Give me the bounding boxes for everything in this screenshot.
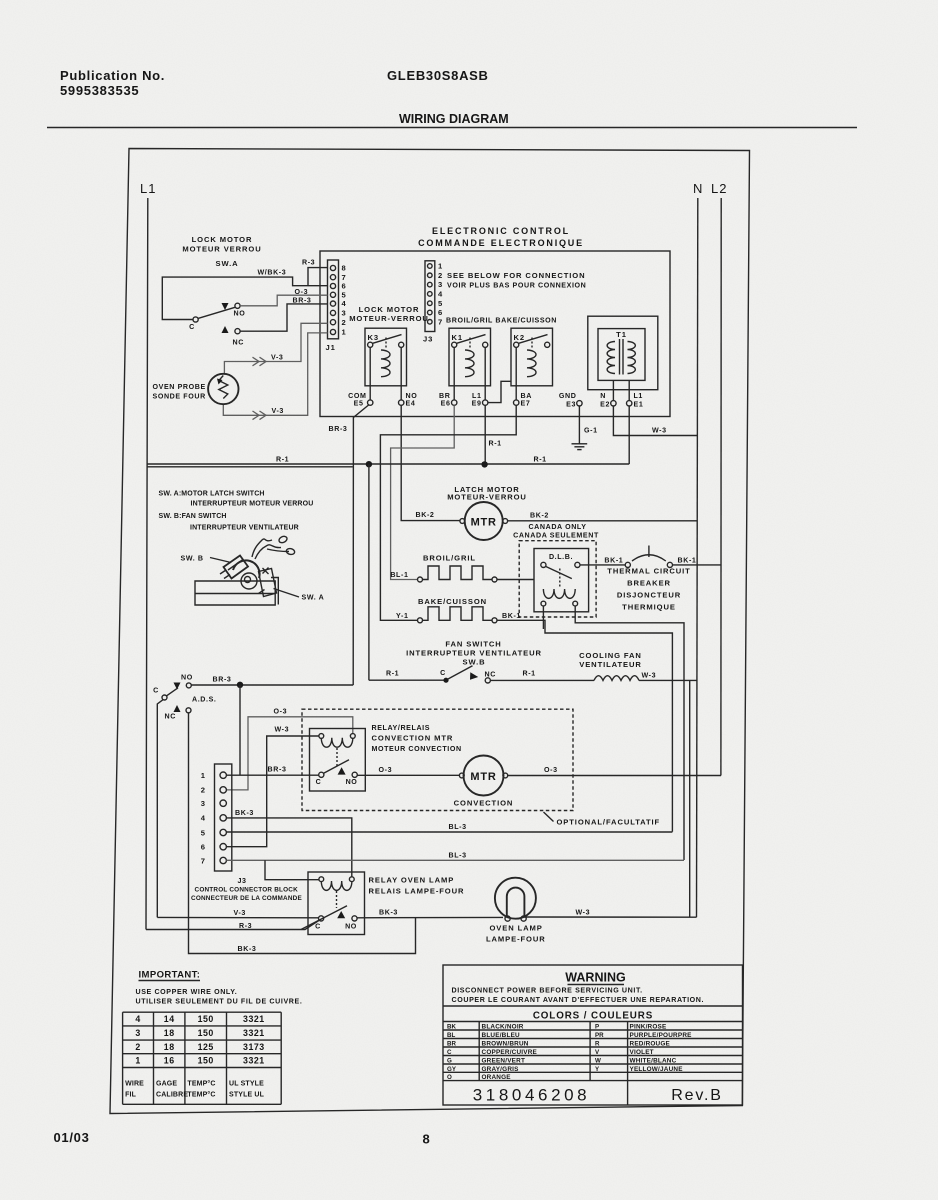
svg-text:BK-2: BK-2: [416, 511, 435, 519]
terminals GND E3, N E2, L1 E1: [577, 401, 582, 406]
svg-text:UTILISER SEULEMENT DU FIL DE C: UTILISER SEULEMENT DU FIL DE CUIVRE.: [136, 998, 303, 1006]
svg-text:GY: GY: [447, 1066, 457, 1073]
svg-text:CONNECTEUR DE LA COMMANDE: CONNECTEUR DE LA COMMANDE: [191, 895, 302, 902]
connector J3 upper: [425, 261, 435, 332]
wire NC to J1 pin4, BR-3: [240, 304, 327, 331]
wire bake right to BL-3 riser: [497, 620, 672, 832]
svg-text:INTERRUPTEUR VENTILATEUR: INTERRUPTEUR VENTILATEUR: [406, 649, 542, 658]
svg-text:FAN SWITCH: FAN SWITCH: [445, 640, 501, 649]
svg-text:BROIL/GRIL: BROIL/GRIL: [423, 554, 476, 563]
svg-text:G-1: G-1: [584, 427, 598, 435]
svg-text:O-3: O-3: [295, 288, 309, 296]
wire E7 to bake element: [380, 405, 516, 620]
svg-text:E6: E6: [441, 400, 451, 408]
svg-text:GLEB30S8ASB: GLEB30S8ASB: [387, 68, 489, 83]
D.L.B. relay box: [534, 549, 589, 612]
svg-text:NO: NO: [181, 674, 193, 682]
svg-text:OVEN PROBE: OVEN PROBE: [153, 383, 206, 391]
svg-text:COOLING FAN: COOLING FAN: [579, 651, 642, 660]
bus R-1: [148, 463, 630, 465]
svg-text:USE COPPER WIRE ONLY.: USE COPPER WIRE ONLY.: [136, 988, 238, 996]
svg-text:RELAIS LAMPE-FOUR: RELAIS LAMPE-FOUR: [369, 887, 465, 896]
chevrons upper: [253, 357, 260, 366]
svg-text:BR-3: BR-3: [268, 766, 287, 774]
svg-text:BK-2: BK-2: [530, 512, 549, 520]
svg-text:MOTEUR-VERROU: MOTEUR-VERROU: [447, 493, 527, 502]
svg-text:BK-3: BK-3: [235, 809, 254, 817]
svg-text:MOTEUR VERROU: MOTEUR VERROU: [182, 245, 261, 254]
page border frame: [110, 149, 750, 1114]
svg-text:NC: NC: [485, 671, 496, 679]
svg-text:COUPER LE COURANT AVANT D'EFFE: COUPER LE COURANT AVANT D'EFFECTUER UNE …: [452, 996, 705, 1004]
motor MTR latch: [465, 502, 503, 540]
svg-text:A.D.S.: A.D.S.: [192, 696, 217, 704]
svg-text:BR: BR: [447, 1040, 456, 1047]
svg-text:THERMAL CIRCUIT: THERMAL CIRCUIT: [607, 567, 690, 576]
svg-text:MOTEUR-VERROU: MOTEUR-VERROU: [349, 314, 429, 323]
svg-text:O-3: O-3: [379, 766, 393, 774]
svg-text:W-3: W-3: [576, 909, 591, 917]
cooling fan coil: [594, 676, 639, 681]
svg-text:W-3: W-3: [652, 427, 667, 435]
wire broil right to D.L.B.: [497, 579, 534, 581]
svg-text:WIRING DIAGRAM: WIRING DIAGRAM: [399, 112, 509, 126]
wire gauge table: [123, 1011, 282, 1013]
svg-text:R-1: R-1: [523, 670, 536, 678]
svg-text:2: 2: [342, 318, 346, 327]
svg-text:E3: E3: [566, 401, 576, 409]
connector J1: [328, 260, 339, 339]
electronic control box: [320, 251, 670, 417]
svg-text:L1: L1: [140, 181, 156, 196]
wire J1 pin1 to probe, V-3 lower: [223, 333, 327, 415]
wire L1 rail: [146, 198, 148, 930]
svg-text:3: 3: [342, 309, 346, 318]
svg-text:MTR: MTR: [471, 517, 497, 529]
svg-text:R-1: R-1: [386, 670, 399, 678]
wire J1 pin2 to probe, V-3 upper: [224, 323, 327, 374]
svg-text:J3: J3: [423, 335, 433, 344]
svg-text:3: 3: [135, 1028, 140, 1038]
wire A.D.S. NC down, BK-3: [189, 713, 416, 954]
svg-text:BL: BL: [447, 1032, 455, 1039]
svg-text:L1: L1: [634, 392, 643, 400]
wire J3 pin2 O-3 to relay coil: [226, 717, 352, 790]
svg-text:E9: E9: [472, 400, 482, 408]
svg-text:WHITE/BLANC: WHITE/BLANC: [630, 1057, 677, 1064]
wire J3 pin6 W-3 to relay coil: [226, 736, 319, 847]
svg-text:18: 18: [164, 1042, 175, 1052]
wire D.L.B. coil left stub: [542, 606, 544, 629]
wire E2 to N rail, W-3: [613, 406, 697, 436]
svg-text:C: C: [447, 1049, 452, 1056]
wire V-3 to relay C: [157, 916, 318, 918]
svg-text:18: 18: [164, 1028, 175, 1038]
wire J3 pin1 BR-3 to relay C: [226, 774, 318, 776]
wire BR-3 drop to convection relay: [239, 685, 241, 775]
svg-text:2: 2: [438, 271, 442, 280]
wire E4 BK-2 to latch motor: [401, 405, 460, 520]
svg-text:IMPORTANT:: IMPORTANT:: [139, 970, 201, 981]
svg-text:FIL: FIL: [125, 1092, 137, 1099]
svg-text:ORANGE: ORANGE: [482, 1074, 512, 1081]
svg-text:V-3: V-3: [272, 407, 284, 415]
svg-text:BR-3: BR-3: [329, 425, 348, 433]
svg-text:6: 6: [342, 282, 346, 291]
svg-text:GAGE: GAGE: [156, 1081, 177, 1088]
relay K3: [365, 328, 407, 386]
svg-text:E2: E2: [600, 401, 610, 409]
svg-text:C: C: [315, 923, 321, 931]
wire breaker to L2: [673, 564, 722, 566]
svg-text:6: 6: [438, 308, 442, 317]
svg-text:OVEN LAMP: OVEN LAMP: [490, 924, 543, 933]
svg-text:THERMIQUE: THERMIQUE: [622, 603, 676, 612]
svg-text:SW. B:FAN SWITCH: SW. B:FAN SWITCH: [159, 513, 227, 520]
optional dashed box: [302, 709, 573, 810]
svg-text:INTERRUPTEUR VENTILATEUR: INTERRUPTEUR VENTILATEUR: [190, 525, 299, 532]
svg-text:SEE BELOW FOR CONNECTION: SEE BELOW FOR CONNECTION: [447, 271, 585, 280]
ground symbol: [572, 443, 588, 445]
svg-text:VENTILATEUR: VENTILATEUR: [579, 660, 642, 669]
relay K1: [449, 328, 491, 386]
svg-text:R-3: R-3: [302, 259, 315, 267]
relay oven lamp: [308, 872, 365, 935]
svg-text:COPPER/CUIVRE: COPPER/CUIVRE: [482, 1049, 538, 1056]
wire relay NO to convection motor, O-3: [357, 774, 459, 776]
svg-text:SW.A: SW.A: [215, 259, 238, 268]
oven lamp: [495, 878, 536, 919]
svg-text:BLUE/BLEU: BLUE/BLEU: [482, 1032, 521, 1039]
wire E5 BR-3 down to A.D.S. NO: [353, 405, 369, 686]
svg-text:RELAY OVEN LAMP: RELAY OVEN LAMP: [369, 876, 455, 885]
wire A.D.S. C down, V-3: [157, 700, 163, 918]
svg-text:8: 8: [423, 1132, 431, 1147]
svg-text:CONVECTION MTR: CONVECTION MTR: [372, 734, 454, 743]
svg-text:INTERRUPTEUR MOTEUR VERROU: INTERRUPTEUR MOTEUR VERROU: [191, 501, 314, 508]
svg-text:1: 1: [135, 1056, 140, 1066]
svg-text:V-3: V-3: [234, 909, 246, 917]
wire E1 down to R-1 bus: [628, 406, 630, 464]
svg-text:W: W: [595, 1057, 601, 1064]
svg-text:BK-3: BK-3: [238, 945, 257, 953]
wire R-3 from L1 to relay C: [146, 921, 319, 930]
svg-text:E7: E7: [521, 400, 531, 408]
svg-text:GND: GND: [559, 392, 577, 400]
svg-text:SW. B: SW. B: [181, 555, 204, 563]
connector J3 block: [215, 764, 232, 871]
wire convection motor to L2, O-3: [508, 775, 721, 777]
svg-text:318046208: 318046208: [473, 1086, 591, 1105]
wire L2 rail: [720, 198, 722, 776]
wire J3 pin4 BK-3 to lamp relay coil: [226, 818, 351, 877]
svg-text:BROWN/BRUN: BROWN/BRUN: [482, 1040, 529, 1047]
svg-text:TEMP°C: TEMP°C: [187, 1091, 215, 1099]
svg-text:N: N: [693, 181, 703, 196]
svg-text:150: 150: [198, 1056, 214, 1066]
svg-text:CANADA ONLY: CANADA ONLY: [528, 523, 586, 531]
svg-text:BL-1: BL-1: [390, 571, 408, 579]
svg-text:T1: T1: [616, 330, 627, 339]
svg-text:VOIR PLUS BAS POUR CONNEXION: VOIR PLUS BAS POUR CONNEXION: [447, 282, 586, 290]
svg-text:7: 7: [342, 273, 346, 282]
svg-text:N: N: [600, 392, 606, 400]
svg-text:E5: E5: [354, 400, 364, 408]
D.L.B. relay dashed box: [519, 541, 596, 617]
svg-text:LOCK MOTOR: LOCK MOTOR: [359, 305, 420, 314]
svg-text:COLORS / COULEURS: COLORS / COULEURS: [533, 1011, 653, 1022]
svg-text:C: C: [153, 687, 159, 695]
svg-text:RELAY/RELAIS: RELAY/RELAIS: [372, 724, 431, 732]
svg-text:R-1: R-1: [276, 456, 289, 464]
switch SW.B fan: [369, 679, 444, 681]
transformer T1: [588, 316, 658, 390]
wire E9 down to bus: [484, 405, 486, 464]
svg-text:DISJONCTEUR: DISJONCTEUR: [617, 591, 681, 600]
wire R-1 down to fan switch: [368, 464, 370, 680]
wire J3 pin7 BL-3: [226, 859, 684, 861]
svg-text:STYLE UL: STYLE UL: [229, 1092, 265, 1099]
svg-text:BREAKER: BREAKER: [627, 579, 671, 588]
svg-text:SONDE FOUR: SONDE FOUR: [153, 393, 206, 401]
relay K2: [511, 328, 553, 386]
svg-text:NC: NC: [233, 339, 244, 347]
svg-text:4: 4: [135, 1014, 140, 1024]
latch mechanism drawing: [195, 535, 295, 605]
wire cooling fan to N, W-3: [639, 679, 697, 681]
label optional: [544, 812, 554, 822]
svg-text:3173: 3173: [243, 1042, 265, 1052]
svg-text:E1: E1: [634, 401, 644, 409]
svg-text:3321: 3321: [243, 1028, 265, 1038]
svg-text:BR-3: BR-3: [213, 676, 232, 684]
svg-text:R-1: R-1: [489, 440, 502, 448]
svg-text:MOTEUR CONVECTION: MOTEUR CONVECTION: [372, 745, 462, 753]
svg-text:Publication No.: Publication No.: [60, 68, 165, 83]
wire oven lamp W-3 riser: [689, 680, 691, 917]
svg-text:K3: K3: [368, 333, 380, 342]
svg-text:3: 3: [201, 799, 205, 808]
svg-text:G: G: [447, 1057, 452, 1064]
svg-text:BROIL/GRIL BAKE/CUISSON: BROIL/GRIL BAKE/CUISSON: [446, 317, 557, 325]
svg-text:J3: J3: [238, 877, 247, 885]
wire oven lamp to N rail, W-3: [524, 916, 696, 918]
oven probe: [208, 374, 238, 404]
wire E3 to ground, G-1: [578, 406, 580, 444]
svg-text:NC: NC: [165, 713, 176, 721]
svg-text:W/BK-3: W/BK-3: [258, 269, 287, 277]
svg-text:3321: 3321: [243, 1056, 265, 1066]
svg-text:L2: L2: [711, 181, 727, 196]
svg-text:NO: NO: [345, 923, 357, 931]
svg-text:NO: NO: [346, 778, 358, 786]
warning box: [443, 965, 743, 1105]
svg-text:CALIBRE: CALIBRE: [156, 1092, 188, 1099]
svg-text:O: O: [447, 1074, 452, 1081]
svg-text:O-3: O-3: [274, 708, 288, 716]
svg-text:BL-3: BL-3: [449, 823, 467, 831]
svg-text:2: 2: [201, 786, 205, 795]
motor MTR convection: [464, 756, 504, 796]
svg-text:K2: K2: [514, 333, 526, 342]
svg-text:SW. A:MOTOR LATCH SWITCH: SW. A:MOTOR LATCH SWITCH: [159, 491, 265, 498]
svg-text:RED/ROUGE: RED/ROUGE: [630, 1040, 671, 1047]
wire D.L.B. coil right to BL-3: [575, 606, 684, 860]
svg-text:ELECTRONIC CONTROL: ELECTRONIC CONTROL: [432, 226, 570, 236]
svg-text:8: 8: [342, 264, 346, 273]
svg-text:BLACK/NOIR: BLACK/NOIR: [482, 1023, 524, 1030]
svg-text:K1: K1: [452, 333, 464, 342]
svg-text:Y-1: Y-1: [396, 612, 408, 620]
svg-text:PINK/ROSE: PINK/ROSE: [630, 1023, 667, 1030]
relay convection: [310, 729, 366, 792]
svg-text:J1: J1: [326, 343, 336, 352]
legend info box top edge: [148, 466, 353, 468]
svg-text:C: C: [189, 323, 195, 331]
svg-text:R-1: R-1: [534, 456, 547, 464]
svg-text:14: 14: [164, 1014, 175, 1024]
svg-text:Rev.B: Rev.B: [671, 1087, 722, 1104]
svg-text:V-3: V-3: [271, 353, 283, 361]
svg-text:BK-3: BK-3: [379, 909, 398, 917]
svg-text:TEMP°C: TEMP°C: [187, 1080, 215, 1088]
switch SW.A: [193, 317, 198, 322]
wire C to J1 pin6, W/BK-3: [162, 277, 327, 319]
svg-text:R: R: [595, 1040, 600, 1047]
header rule: [47, 127, 857, 129]
wire A.D.S. NO to BR-3 riser: [191, 684, 353, 686]
svg-text:GREEN/VERT: GREEN/VERT: [482, 1057, 526, 1064]
svg-text:D.L.B.: D.L.B.: [549, 553, 573, 561]
svg-text:CONVECTION: CONVECTION: [454, 799, 514, 808]
svg-text:6: 6: [201, 843, 205, 852]
svg-text:CANADA SEULEMENT: CANADA SEULEMENT: [513, 532, 599, 540]
svg-text:E4: E4: [406, 400, 416, 408]
wire NO to J1 pin5, O-3: [240, 295, 327, 306]
svg-text:C: C: [316, 778, 322, 786]
svg-text:BK: BK: [447, 1023, 456, 1030]
wire E6 to broil element: [391, 405, 455, 579]
svg-text:NO: NO: [234, 310, 246, 318]
svg-text:3321: 3321: [243, 1014, 265, 1024]
svg-text:125: 125: [198, 1042, 214, 1052]
svg-text:OPTIONAL/FACULTATIF: OPTIONAL/FACULTATIF: [557, 818, 661, 827]
svg-text:5995383535: 5995383535: [60, 83, 139, 98]
svg-text:2: 2: [135, 1042, 140, 1052]
svg-text:GRAY/GRIS: GRAY/GRIS: [482, 1066, 520, 1073]
svg-text:BAKE/CUISSON: BAKE/CUISSON: [418, 597, 487, 606]
svg-text:01/03: 01/03: [54, 1130, 90, 1145]
heating element bake: [418, 618, 423, 623]
svg-text:LOCK MOTOR: LOCK MOTOR: [192, 235, 253, 244]
svg-text:LAMPE-FOUR: LAMPE-FOUR: [486, 935, 546, 944]
svg-text:7: 7: [201, 856, 205, 865]
svg-text:UL STYLE: UL STYLE: [229, 1081, 264, 1088]
wire pin7 jog to lamp relay coil: [265, 860, 319, 879]
svg-text:BK-1: BK-1: [502, 612, 521, 620]
svg-text:PR: PR: [595, 1032, 604, 1039]
svg-text:DISCONNECT POWER BEFORE SERVIC: DISCONNECT POWER BEFORE SERVICING UNIT.: [452, 987, 643, 995]
svg-text:YELLOW/JAUNE: YELLOW/JAUNE: [630, 1066, 684, 1073]
svg-text:BL-3: BL-3: [449, 852, 467, 860]
wire J3 pin5 BL-3: [226, 831, 672, 833]
thermal circuit breaker: [580, 564, 625, 566]
svg-text:O-3: O-3: [544, 766, 558, 774]
svg-text:SW.B: SW.B: [462, 658, 485, 667]
svg-text:R-3: R-3: [239, 922, 252, 930]
svg-text:MTR: MTR: [470, 771, 496, 783]
svg-text:150: 150: [198, 1014, 214, 1024]
svg-text:C: C: [440, 669, 446, 677]
svg-text:WARNING: WARNING: [565, 971, 625, 985]
chevrons lower: [253, 411, 260, 420]
svg-text:W-3: W-3: [642, 672, 657, 680]
svg-text:BK-1: BK-1: [604, 557, 623, 565]
svg-text:3: 3: [438, 280, 442, 289]
svg-text:W-3: W-3: [275, 726, 290, 734]
svg-text:150: 150: [198, 1028, 214, 1038]
svg-text:VIOLET: VIOLET: [630, 1049, 654, 1056]
svg-text:PURPLE/POURPRE: PURPLE/POURPRE: [630, 1032, 693, 1039]
svg-text:BR-3: BR-3: [293, 297, 312, 305]
svg-text:16: 16: [164, 1056, 175, 1066]
wire NC to cooling fan: [490, 679, 594, 681]
wire R-3 from J1 pin8: [308, 268, 328, 286]
svg-text:7: 7: [438, 317, 442, 326]
svg-text:COMMANDE ELECTRONIQUE: COMMANDE ELECTRONIQUE: [418, 238, 584, 248]
svg-text:CONTROL CONNECTOR BLOCK: CONTROL CONNECTOR BLOCK: [195, 887, 299, 894]
wire N rail: [697, 198, 698, 917]
svg-text:P: P: [595, 1023, 599, 1030]
svg-text:BK-1: BK-1: [678, 557, 697, 565]
svg-text:SW. A: SW. A: [302, 594, 325, 602]
wire relay NO to oven lamp, BK-3: [357, 916, 503, 918]
heating element broil: [418, 577, 423, 582]
svg-text:WIRE: WIRE: [125, 1081, 144, 1088]
wire latch motor to N rail, BK-2: [508, 520, 697, 522]
wire E9 to K2 coil: [488, 381, 511, 402]
